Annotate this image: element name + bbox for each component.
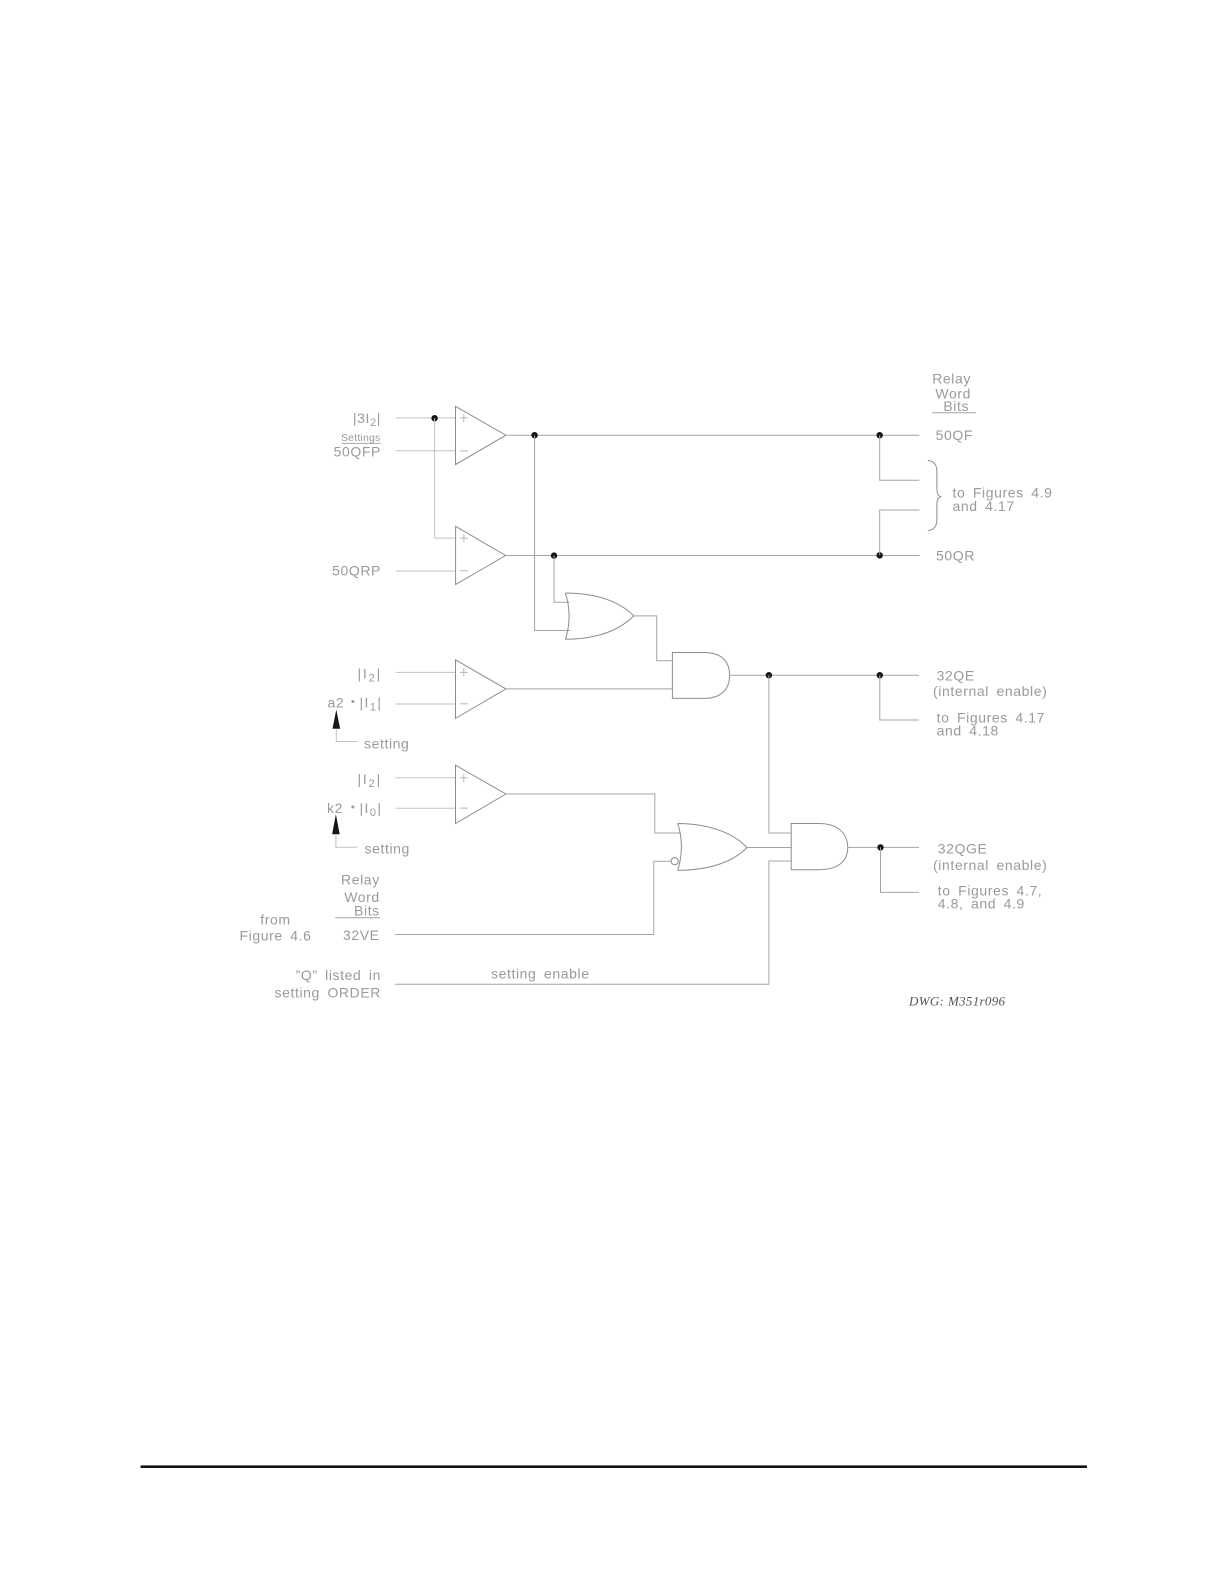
svg-text:setting ORDER: setting ORDER xyxy=(275,985,382,1001)
svg-text:from: from xyxy=(260,912,290,928)
svg-text:50QRP: 50QRP xyxy=(332,563,381,579)
svg-text:a2: a2 xyxy=(328,695,345,711)
node junction U2 output xyxy=(551,552,557,558)
svg-text:DWG:: DWG: xyxy=(908,994,944,1009)
comparator U1 xyxy=(456,406,506,464)
wire comparator U3 - input xyxy=(396,703,456,705)
wire U2 output 50QR line xyxy=(506,555,920,557)
node junction U1 output xyxy=(531,432,537,438)
wire U6 output 32QE line xyxy=(730,674,919,676)
svg-text:”Q” listed in: ”Q” listed in xyxy=(296,967,381,983)
label a2 . |I1| xyxy=(328,695,383,714)
svg-text:32VE: 32VE xyxy=(343,927,380,943)
wire junction to AND U8 top input xyxy=(769,675,791,833)
wire U2 output to OR gate U5 upper input xyxy=(554,556,570,603)
brace to figures xyxy=(928,460,941,530)
wire U1 output 50QF line xyxy=(506,434,920,436)
and-gate U6 xyxy=(672,653,729,699)
arrow setting pointer U3 xyxy=(333,710,341,729)
svg-text:M351r096: M351r096 xyxy=(947,994,1005,1009)
or-gate U5 xyxy=(565,593,633,639)
bubble inverted input U7 xyxy=(671,858,678,865)
wire U7 output to AND U8 middle input xyxy=(747,847,791,849)
wire 50QR brace tap xyxy=(880,510,920,555)
and-gate U8 xyxy=(791,824,848,870)
svg-text:Bits: Bits xyxy=(943,398,969,414)
svg-text:Bits: Bits xyxy=(354,903,380,919)
svg-text:setting enable: setting enable xyxy=(491,966,590,982)
label to Figures 4.17 and 4.18 xyxy=(937,710,1045,739)
wire U4 output to OR U7 top input xyxy=(506,794,681,833)
label to Figures 4.9 and 4.17 xyxy=(953,485,1053,514)
svg-text:50QR: 50QR xyxy=(936,548,975,564)
node junction 32QE label xyxy=(877,672,883,678)
label 32QGE internal enable xyxy=(933,841,1047,874)
footer rule xyxy=(141,1465,1087,1468)
label Settings xyxy=(341,432,381,444)
svg-text:setting: setting xyxy=(364,736,409,752)
wire U5 output to AND gate U6 upper input xyxy=(634,616,673,661)
wire 32QGE tap to figures xyxy=(881,847,920,892)
node junction 50QF xyxy=(877,432,883,438)
svg-text:Relay: Relay xyxy=(932,371,971,387)
wire comparator U3 + input xyxy=(396,671,456,673)
wire setting leader U4 xyxy=(336,834,358,847)
svg-text:32QE: 32QE xyxy=(937,668,975,684)
svg-text:50QF: 50QF xyxy=(936,427,973,443)
wire comparator U2 - input xyxy=(396,570,456,572)
node junction on U1 + input xyxy=(431,415,437,421)
svg-text:Relay: Relay xyxy=(341,872,380,888)
wire comparator U1 - input xyxy=(396,450,456,452)
comparator U4 xyxy=(456,765,506,823)
svg-text:setting: setting xyxy=(365,841,410,857)
label from Figure 4.6 xyxy=(239,912,311,944)
svg-text:Figure 4.6: Figure 4.6 xyxy=(239,928,311,944)
label to Figures 4.7 4.8 and 4.9 xyxy=(938,883,1043,912)
wire 32VE to OR U7 inverted input xyxy=(395,861,671,934)
wire setting leader U3 xyxy=(336,729,357,742)
label 32QE internal enable xyxy=(933,668,1047,700)
svg-text:4.8, and 4.9: 4.8, and 4.9 xyxy=(938,896,1025,912)
svg-text:(internal enable): (internal enable) xyxy=(933,857,1047,873)
svg-text:and 4.17: and 4.17 xyxy=(953,498,1015,514)
wire junction to U2 + input xyxy=(435,418,456,538)
label Relay Word Bits left xyxy=(335,872,380,919)
svg-text:50QFP: 50QFP xyxy=(334,444,381,460)
label Q listed in setting ORDER xyxy=(275,967,382,1001)
wire U1 output to OR gate U5 lower input xyxy=(535,435,570,630)
or-gate U7 with inverted input xyxy=(678,824,747,871)
svg-text:Settings: Settings xyxy=(341,432,381,444)
wire U8 output 32QGE line xyxy=(848,846,919,848)
svg-text:32QGE: 32QGE xyxy=(938,841,988,857)
node junction 50QR xyxy=(877,552,883,558)
wire comparator U4 - input xyxy=(396,807,456,809)
wire 32QE tap to figures xyxy=(880,675,919,720)
node junction U6 output xyxy=(766,672,772,678)
arrow setting pointer U4 xyxy=(332,814,340,834)
label Relay Word Bits right xyxy=(932,371,976,415)
wire U3 output to AND U6 lower input xyxy=(506,688,673,690)
svg-text:and 4.18: and 4.18 xyxy=(937,723,999,739)
wire comparator U1 + input xyxy=(396,417,456,419)
svg-text:(internal enable): (internal enable) xyxy=(933,683,1047,699)
wire setting enable to AND U8 bottom input xyxy=(395,861,791,984)
node junction 32QGE label xyxy=(877,844,883,850)
wire 50QF brace tap xyxy=(880,435,920,480)
svg-text:k2: k2 xyxy=(327,800,343,816)
comparator U2 xyxy=(456,526,506,584)
wire comparator U4 + input xyxy=(396,777,456,779)
label k2 . |I0| xyxy=(327,800,382,819)
comparator U3 xyxy=(456,660,506,719)
